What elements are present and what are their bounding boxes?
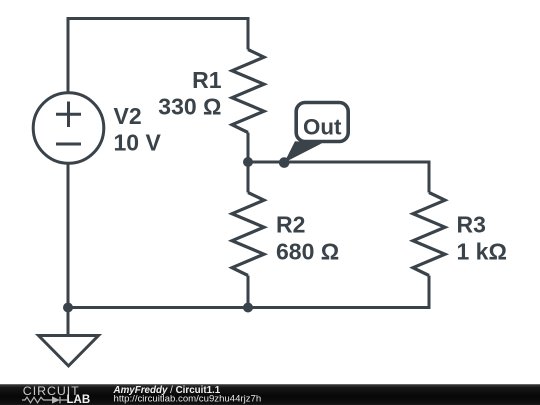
svg-text:R1: R1 [192, 67, 222, 93]
flag Out callout box [296, 103, 348, 142]
footer bar [0, 384, 540, 405]
wire bottom horizontal [67, 306, 431, 309]
resistor R2 [232, 193, 264, 276]
voltage source V2 circle [33, 93, 104, 164]
node Out junction dot [279, 157, 290, 168]
wire R3 bottom lead [428, 276, 431, 310]
svg-text:LAB: LAB [67, 394, 91, 405]
flag Out pointer wedge [284, 141, 322, 162]
logo resistor squiggle and diode [22, 397, 67, 404]
svg-text:1 kΩ: 1 kΩ [457, 239, 507, 265]
node ground-left junction dot [63, 303, 73, 313]
wire R1 bottom lead [247, 133, 250, 163]
svg-text:R2: R2 [276, 212, 305, 238]
wire top horizontal [67, 17, 250, 20]
wire ground lead [67, 308, 70, 336]
wire V2 top lead (vertical) [67, 17, 70, 93]
V2 minus sign [56, 143, 81, 146]
wire R2 bottom lead [247, 276, 250, 308]
resistor R3 [413, 193, 445, 276]
wire left vertical below source [67, 163, 70, 308]
ground [39, 336, 99, 366]
node bottom-middle junction dot [243, 303, 253, 313]
node A junction dot (R1/R2 junction) [243, 157, 253, 167]
svg-text:V2: V2 [114, 103, 142, 129]
svg-text:680 Ω: 680 Ω [276, 239, 339, 265]
wire R1 top lead [247, 17, 250, 50]
svg-text:R3: R3 [457, 212, 486, 238]
svg-text:http://circuitlab.com/cu9zhu44: http://circuitlab.com/cu9zhu44rjz7h [114, 394, 262, 405]
V2 plus sign [56, 102, 81, 128]
svg-text:10 V: 10 V [114, 130, 162, 156]
wire R3 top lead [428, 161, 431, 193]
svg-text:Out: Out [303, 114, 342, 139]
svg-text:330 Ω: 330 Ω [158, 94, 221, 120]
resistor R1 [232, 50, 264, 133]
wire middle horizontal (node Out to R3) [248, 161, 431, 164]
wire R2 top lead [247, 162, 250, 193]
